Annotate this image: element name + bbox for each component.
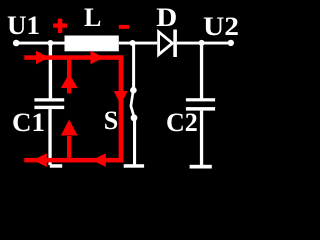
capacitor C2 top plate	[186, 98, 215, 101]
capacitor C1 top plate	[34, 98, 64, 101]
capacitor C2 bottom lead	[200, 111, 203, 166]
arrow right on top path (right)	[91, 51, 105, 65]
switch S arm	[131, 92, 134, 116]
capacitor C1 bottom terminal bar	[50, 164, 62, 168]
svg-text:C1: C1	[12, 108, 45, 137]
arrow up through C1 (upper)	[61, 74, 78, 89]
wire top-left (U1 to L)	[16, 42, 65, 45]
capacitor C1 bottom plate	[34, 106, 64, 109]
wire red current path top	[24, 55, 123, 60]
switch S top lead	[132, 43, 135, 90]
capacitor C1 top lead	[49, 43, 52, 98]
capacitor C1 bottom lead	[48, 109, 51, 165]
arrow left on bottom path (left)	[33, 153, 47, 167]
switch S top contact dot	[130, 87, 137, 94]
switch S bottom lead	[133, 120, 136, 165]
svg-text:U1: U1	[7, 11, 40, 40]
wire red current path bottom	[24, 158, 123, 163]
wire D to U2	[177, 42, 231, 45]
node junction C2/top wire	[199, 40, 205, 46]
inductor L body	[65, 36, 119, 52]
svg-text:U2: U2	[203, 12, 239, 41]
wire L to D	[119, 42, 158, 45]
node junction C1/top wire	[47, 40, 53, 46]
arrow left on bottom path (right)	[92, 153, 106, 167]
svg-text:D: D	[156, 3, 177, 32]
diode D cathode bar	[173, 30, 177, 58]
capacitor C2 top lead	[200, 43, 203, 99]
arrow up through C1 (lower)	[61, 120, 78, 136]
switch S bottom terminal bar	[124, 164, 144, 168]
switch S bottom contact dot	[131, 114, 138, 121]
wire red current branch through C1 upper	[67, 57, 71, 94]
wire red current branch through C1 lower	[67, 136, 71, 162]
svg-text:C2: C2	[166, 108, 198, 137]
plus sign (U1 polarity)	[53, 23, 67, 27]
arrow right on top path (left)	[36, 51, 49, 65]
wire red current path right vertical	[119, 55, 124, 162]
svg-text:S: S	[104, 106, 118, 135]
node U2+ terminal dot	[228, 40, 234, 46]
capacitor C2 bottom plate	[186, 107, 215, 111]
node U1+ terminal dot	[13, 40, 20, 47]
capacitor C2 bottom terminal bar	[190, 165, 212, 169]
arrow down on right vertical	[114, 91, 128, 105]
svg-text:L: L	[84, 3, 101, 32]
minus sign (L polarity)	[119, 25, 129, 29]
node junction L/S	[130, 40, 136, 46]
diode D triangle	[159, 32, 173, 55]
